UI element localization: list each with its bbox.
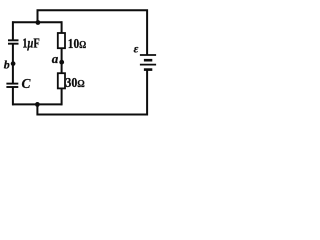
- svg-text:a: a: [52, 51, 59, 66]
- svg-text:1μF: 1μF: [22, 37, 40, 52]
- wire top outer: [38, 10, 148, 54]
- battery plate short 1: [144, 59, 152, 62]
- node junction bottom: [35, 102, 40, 107]
- svg-text:30Ω: 30Ω: [65, 76, 85, 91]
- wire middle branch lower: [61, 89, 63, 106]
- battery plate long top: [140, 54, 156, 56]
- resistor 10ohm box: [58, 33, 65, 48]
- wire middle branch center: [61, 48, 63, 74]
- svg-text:b: b: [4, 58, 10, 72]
- svg-text:10Ω: 10Ω: [68, 37, 87, 52]
- capacitor C plate bottom: [6, 86, 18, 88]
- capacitor 1uF plate top: [8, 39, 19, 41]
- wire bottom outer: [37, 70, 147, 115]
- wire middle branch upper: [61, 21, 63, 33]
- wire left branch lower: [12, 87, 14, 105]
- node b: [11, 61, 16, 66]
- node a: [59, 60, 64, 65]
- node junction top: [36, 20, 41, 25]
- wire left branch middle: [12, 44, 14, 84]
- wire top sub: [12, 21, 62, 23]
- battery plate short 2: [144, 68, 152, 71]
- svg-text:C: C: [22, 76, 32, 91]
- wire left branch upper: [12, 21, 14, 40]
- capacitor 1uF plate bottom: [8, 43, 19, 45]
- capacitor C plate top: [6, 83, 18, 85]
- resistor 30ohm box: [58, 73, 65, 88]
- svg-text:ε: ε: [134, 44, 139, 56]
- battery plate long 2: [140, 64, 156, 66]
- wire bottom sub: [12, 103, 62, 105]
